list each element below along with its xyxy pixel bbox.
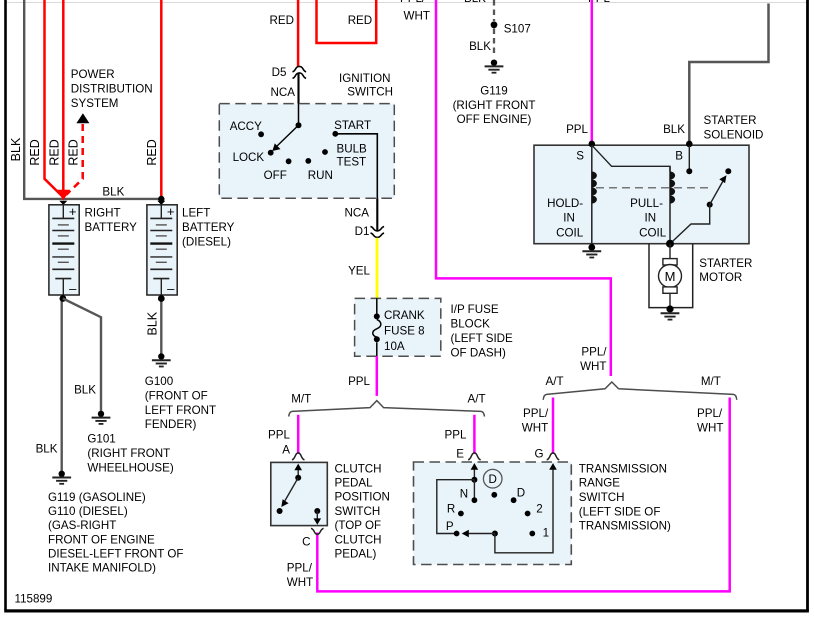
svg-text:SWITCH: SWITCH <box>335 505 381 518</box>
node E junction <box>471 477 477 483</box>
svg-text:BLK: BLK <box>145 311 159 335</box>
node C contact <box>314 508 320 514</box>
svg-text:RED: RED <box>48 139 62 165</box>
svg-text:PEDAL): PEDAL) <box>335 548 377 561</box>
starter solenoid box <box>534 145 749 244</box>
node S terminal <box>589 141 596 148</box>
wire RED to D5 <box>297 0 300 67</box>
svg-text:M/T: M/T <box>701 375 721 388</box>
svg-text:LOCK: LOCK <box>233 151 265 164</box>
svg-text:(RIGHT FRONT: (RIGHT FRONT <box>87 447 170 460</box>
circled D indicator <box>483 469 502 488</box>
svg-text:(GAS-RIGHT: (GAS-RIGHT <box>48 519 116 532</box>
svg-text:FENDER): FENDER) <box>145 418 197 431</box>
svg-text:G119 (GASOLINE): G119 (GASOLINE) <box>48 491 146 504</box>
wire S diagonal to pull-in coil <box>592 145 670 171</box>
wire NCA black into ignition switch <box>297 73 299 104</box>
svg-text:–: – <box>69 281 77 296</box>
svg-text:G100: G100 <box>145 375 173 388</box>
svg-text:(RIGHT FRONT: (RIGHT FRONT <box>453 99 536 112</box>
terminal chevron C <box>311 528 324 534</box>
svg-text:M/T: M/T <box>291 393 311 406</box>
clutch pedal position switch box <box>271 462 328 525</box>
node START <box>332 131 338 137</box>
svg-text:TRANSMISSION: TRANSMISSION <box>579 462 667 475</box>
svg-text:(FRONT OF: (FRONT OF <box>145 389 208 402</box>
svg-text:START: START <box>334 119 371 132</box>
svg-text:D: D <box>517 487 525 500</box>
svg-text:PPL: PPL <box>445 429 467 442</box>
wire RED 1 <box>45 0 62 196</box>
starter motor bracket <box>649 244 693 308</box>
wire BLK dashed below S107 <box>493 29 495 58</box>
svg-text:A: A <box>282 444 290 457</box>
wire BLK dashed S107 <box>493 0 495 21</box>
svg-text:(LEFT SIDE: (LEFT SIDE <box>451 332 514 345</box>
node N contact <box>472 497 478 503</box>
node fixed contact <box>725 168 731 174</box>
connector D5 <box>293 66 307 78</box>
ground G119 top <box>491 60 497 66</box>
ignition switch box U <box>219 104 394 199</box>
dashed mechanical link <box>596 187 710 189</box>
clutch lever arm <box>285 478 299 502</box>
svg-text:R: R <box>447 503 455 516</box>
node B terminal <box>686 141 693 148</box>
svg-text:OFF ENGINE): OFF ENGINE) <box>457 113 532 126</box>
terminal chevron G <box>547 453 560 460</box>
wire moving contact to pull-in junction <box>670 205 710 244</box>
wire RED 4 to left battery <box>160 0 163 197</box>
wire PPL to A <box>297 415 300 454</box>
wire E down to N <box>473 480 475 501</box>
svg-text:STARTER: STARTER <box>704 114 757 127</box>
svg-text:WHT: WHT <box>580 360 606 373</box>
wire BLK gray left vertical+horizontal <box>24 0 161 199</box>
node D contact <box>511 497 517 503</box>
svg-text:D: D <box>489 473 497 486</box>
node pull-in junction <box>666 240 674 248</box>
svg-text:OF DASH): OF DASH) <box>451 347 507 360</box>
svg-text:G110 (DIESEL): G110 (DIESEL) <box>48 505 128 518</box>
svg-text:D1: D1 <box>355 225 370 238</box>
svg-text:BLK: BLK <box>9 137 23 161</box>
svg-text:10A: 10A <box>384 340 405 353</box>
ground starter motor <box>661 312 680 314</box>
wire from START to D1 <box>335 134 377 198</box>
svg-text:PPL/: PPL/ <box>697 407 723 420</box>
svg-text:C: C <box>302 536 310 549</box>
svg-text:PPL/: PPL/ <box>400 0 426 5</box>
svg-text:RED: RED <box>67 139 81 165</box>
wire YEL <box>376 238 379 299</box>
node OFF <box>286 158 292 164</box>
svg-text:LEFT: LEFT <box>182 207 210 220</box>
svg-text:PEDAL: PEDAL <box>335 477 374 490</box>
svg-text:TRANSMISSION): TRANSMISSION) <box>579 520 671 533</box>
svg-text:A/T: A/T <box>468 393 486 406</box>
node BULB TEST <box>322 149 328 155</box>
wire E junction L-path to P <box>437 480 475 534</box>
wire pivot to G <box>495 466 553 553</box>
ground G119 bottom <box>52 471 71 484</box>
svg-text:SWITCH: SWITCH <box>347 86 393 99</box>
arrow up at A <box>297 466 299 478</box>
svg-text:HOLD-: HOLD- <box>547 197 583 210</box>
arrow down at C <box>316 511 318 521</box>
svg-text:LEFT FRONT: LEFT FRONT <box>145 404 216 417</box>
svg-text:+: + <box>167 204 175 219</box>
node ignition pivot <box>296 122 302 128</box>
svg-text:WHEELHOUSE): WHEELHOUSE) <box>87 462 173 475</box>
wire BLK left battery to G100 ground <box>160 299 162 354</box>
page border left <box>4 0 7 610</box>
node range pivot <box>492 531 498 537</box>
svg-text:PPL/: PPL/ <box>287 562 313 575</box>
splice tent 1 M/T A/T <box>289 401 485 417</box>
svg-text:RED: RED <box>145 139 159 165</box>
node left battery negative <box>158 295 165 302</box>
svg-text:1: 1 <box>543 527 549 540</box>
wire BLK right battery to G119 ground <box>61 299 63 472</box>
node clutch lower contact <box>277 508 283 514</box>
svg-text:+: + <box>69 204 77 219</box>
svg-text:RANGE: RANGE <box>579 477 620 490</box>
arrow up at E <box>473 466 475 480</box>
ignition lever arm to LOCK <box>276 125 299 147</box>
svg-text:RUN: RUN <box>308 169 333 182</box>
node moving contact <box>707 202 713 208</box>
svg-text:SOLENOID: SOLENOID <box>704 129 764 142</box>
ground hold-in coil <box>582 250 601 252</box>
svg-text:2: 2 <box>536 503 542 516</box>
svg-text:IN: IN <box>645 212 657 225</box>
svg-text:POSITION: POSITION <box>335 491 390 504</box>
terminal chevron E <box>468 453 481 460</box>
node R contact <box>458 511 464 517</box>
splice tent 2 A/T M/T <box>543 382 737 400</box>
connector D1 <box>371 227 385 238</box>
svg-text:M: M <box>665 269 676 284</box>
svg-text:BLK: BLK <box>102 185 124 198</box>
svg-text:BATTERY: BATTERY <box>182 221 235 234</box>
svg-text:E: E <box>456 448 464 461</box>
node motor ground <box>666 305 673 312</box>
svg-text:CRANK: CRANK <box>384 309 425 322</box>
wire PPL from fuse <box>376 356 379 396</box>
svg-text:FUSE 8: FUSE 8 <box>384 325 425 338</box>
svg-text:BLK: BLK <box>74 384 96 397</box>
svg-text:RED: RED <box>28 139 42 165</box>
svg-text:(TOP OF: (TOP OF <box>335 519 382 532</box>
solenoid switch arm with arrow <box>710 181 724 205</box>
svg-text:S107: S107 <box>504 23 531 36</box>
svg-text:FRONT OF ENGINE: FRONT OF ENGINE <box>48 533 155 546</box>
svg-text:DISTRIBUTION: DISTRIBUTION <box>71 83 153 96</box>
svg-text:A/T: A/T <box>546 375 564 388</box>
svg-text:BULB: BULB <box>337 143 368 156</box>
wire B contact <box>688 145 690 171</box>
svg-text:N: N <box>460 488 468 501</box>
ground G101 <box>92 411 111 424</box>
wire BLK to solenoid B <box>689 4 768 146</box>
svg-text:G: G <box>534 448 543 461</box>
junction arrow red at right battery <box>57 190 70 201</box>
svg-text:WHT: WHT <box>287 576 313 589</box>
svg-text:DIESEL-LEFT FRONT OF: DIESEL-LEFT FRONT OF <box>48 547 184 560</box>
svg-text:CLUTCH: CLUTCH <box>335 462 382 475</box>
svg-text:BATTERY: BATTERY <box>85 221 138 234</box>
svg-text:COIL: COIL <box>639 226 667 239</box>
svg-text:YEL: YEL <box>348 265 370 278</box>
svg-text:(LEFT SIDE OF: (LEFT SIDE OF <box>579 505 661 518</box>
node ACCY <box>258 131 264 137</box>
svg-text:INTAKE MANIFOLD): INTAKE MANIFOLD) <box>48 562 156 575</box>
battery left LEFT BATTERY (DIESEL) <box>147 204 177 296</box>
node LOCK <box>268 150 274 156</box>
svg-text:B: B <box>675 150 683 163</box>
svg-text:PPL: PPL <box>348 375 370 388</box>
svg-text:RIGHT: RIGHT <box>85 207 121 220</box>
svg-text:G119: G119 <box>480 85 508 98</box>
node hold-in ground <box>588 244 595 251</box>
node right battery negative <box>60 295 67 302</box>
node RUN <box>305 158 311 164</box>
wire PPL/WHT M/T branch down and around <box>317 398 729 592</box>
svg-text:115899: 115899 <box>15 593 53 606</box>
node 2 contact <box>525 511 531 517</box>
svg-text:BLK: BLK <box>663 123 685 136</box>
svg-text:PPL: PPL <box>268 429 290 442</box>
battery right RIGHT BATTERY <box>49 204 79 296</box>
svg-text:NCA: NCA <box>345 207 370 220</box>
svg-text:COIL: COIL <box>556 226 584 239</box>
wire RED U loop <box>317 0 377 43</box>
wire PPL to E <box>473 415 476 454</box>
transmission range switch box <box>414 462 572 565</box>
ground G100 <box>152 353 171 366</box>
svg-text:TEST: TEST <box>337 156 367 169</box>
svg-text:BLK: BLK <box>464 0 486 5</box>
node clutch top contact <box>295 475 301 481</box>
svg-text:D5: D5 <box>272 66 287 79</box>
svg-text:BLOCK: BLOCK <box>451 317 491 330</box>
svg-text:–: – <box>167 281 175 296</box>
svg-text:IGNITION: IGNITION <box>339 72 391 85</box>
svg-text:STARTER: STARTER <box>699 257 752 270</box>
svg-text:PULL-: PULL- <box>630 197 663 210</box>
svg-text:S: S <box>576 150 584 163</box>
junction arrow black onto left battery <box>157 201 165 205</box>
svg-text:NCA: NCA <box>271 86 296 99</box>
svg-text:PPL/: PPL/ <box>523 407 549 420</box>
svg-text:BLK: BLK <box>36 443 58 456</box>
svg-text:ACCY: ACCY <box>230 120 262 133</box>
svg-text:RED: RED <box>270 14 294 27</box>
page border right <box>806 0 809 611</box>
wire NCA inside ignition switch <box>298 104 300 126</box>
svg-text:WHT: WHT <box>404 10 430 23</box>
wire PPL to solenoid S <box>591 0 594 143</box>
svg-text:G101: G101 <box>87 433 115 446</box>
fuse CRANK FUSE 8 10A <box>373 298 381 356</box>
svg-text:PPL: PPL <box>566 123 588 136</box>
svg-text:PPL/: PPL/ <box>581 346 607 359</box>
svg-text:BLK: BLK <box>469 40 491 53</box>
svg-text:IN: IN <box>563 212 575 225</box>
faint top cut line <box>7 2 806 4</box>
terminal chevron A <box>292 453 305 460</box>
arrow to power distribution system <box>76 113 89 123</box>
node 1 contact <box>529 531 535 537</box>
wire PPL long to A/T-M/T splice <box>436 0 611 376</box>
motor M starter motor <box>669 244 671 259</box>
svg-text:SWITCH: SWITCH <box>579 491 625 504</box>
svg-text:MOTOR: MOTOR <box>699 271 742 284</box>
svg-text:CLUTCH: CLUTCH <box>335 533 382 546</box>
node D middle contact <box>491 492 497 498</box>
pull-in coil <box>669 166 671 203</box>
node S107 <box>491 21 498 28</box>
wire PPL/WHT to G <box>552 398 555 455</box>
svg-text:(DIESEL): (DIESEL) <box>182 235 231 248</box>
svg-text:I/P FUSE: I/P FUSE <box>451 303 499 316</box>
page border bottom <box>4 609 809 612</box>
wire RED 2 <box>62 0 65 194</box>
junction arrow black onto right battery <box>59 201 67 205</box>
svg-text:POWER: POWER <box>71 68 115 81</box>
fuse block box <box>355 298 441 356</box>
node P contact <box>454 531 460 537</box>
svg-text:RED: RED <box>348 14 372 27</box>
node B contact <box>686 168 692 174</box>
svg-text:WHT: WHT <box>522 421 548 434</box>
svg-text:WHT: WHT <box>697 421 723 434</box>
node left battery junction <box>158 196 164 202</box>
svg-text:OFF: OFF <box>264 169 287 182</box>
wire BLK right battery to G101 ground <box>63 299 101 412</box>
svg-text:SYSTEM: SYSTEM <box>71 97 119 110</box>
svg-text:P: P <box>446 520 454 533</box>
arrow up at G <box>549 463 557 470</box>
range selector arm with arrow to P <box>466 533 495 535</box>
hold-in coil <box>591 145 593 247</box>
wire RED dashed to power distribution <box>66 124 83 195</box>
